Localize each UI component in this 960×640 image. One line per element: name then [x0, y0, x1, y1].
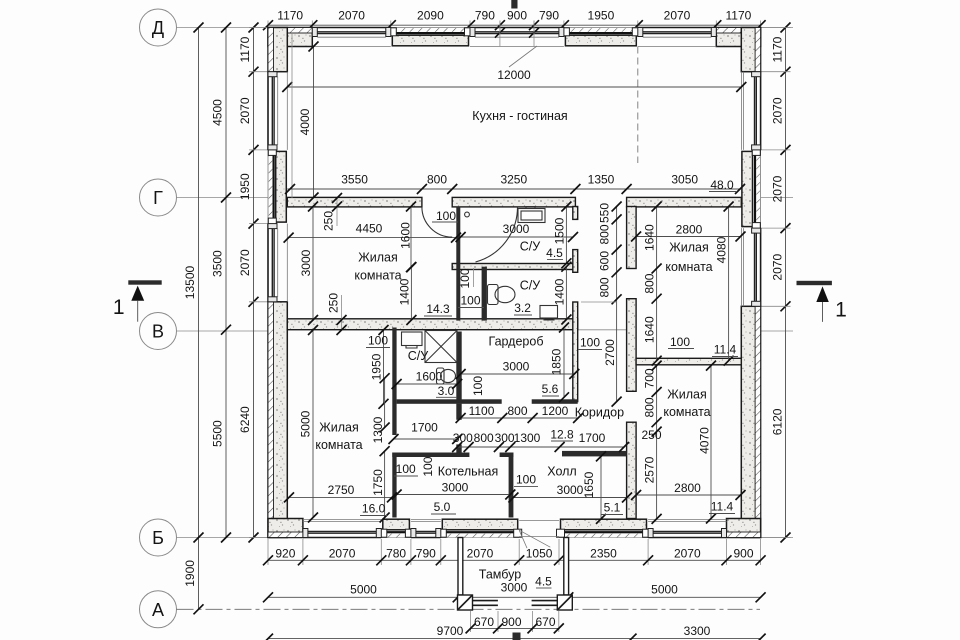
bathroom2 west wall [482, 267, 487, 321]
svg-text:2070: 2070 [238, 249, 252, 276]
svg-text:1170: 1170 [770, 36, 784, 62]
svg-text:11.4: 11.4 [711, 499, 734, 513]
bedroom TL east wall / bathroom1 west [456, 207, 460, 321]
svg-text:Гардероб: Гардероб [489, 335, 544, 349]
svg-text:3.0: 3.0 [438, 384, 455, 398]
svg-text:2700: 2700 [603, 339, 617, 366]
bathroom3 east wall + stubs [456, 332, 461, 404]
tambour south wall [473, 600, 498, 602]
svg-text:Жилая: Жилая [358, 250, 398, 264]
bedroom BL east wall [392, 328, 396, 436]
svg-text:11.4: 11.4 [714, 342, 737, 356]
dim 1700 above boiler [394, 438, 458, 440]
svg-text:1700: 1700 [411, 420, 438, 434]
bottom dimension chain 2 (5000/5000) [268, 596, 761, 598]
top wall box windows 2090/1950 [391, 27, 470, 29]
svg-text:1950: 1950 [588, 8, 615, 22]
svg-text:1650: 1650 [582, 471, 596, 498]
svg-text:1350: 1350 [588, 173, 615, 187]
svg-text:3000: 3000 [299, 249, 313, 276]
svg-text:А: А [152, 600, 164, 620]
window (bottom wall) [411, 537, 441, 539]
svg-text:100: 100 [580, 335, 600, 349]
svg-text:800: 800 [597, 224, 611, 244]
right wall box window 2070 [760, 150, 762, 228]
right dimension chain [785, 28, 787, 538]
svg-text:250: 250 [326, 293, 340, 313]
door arc bedroom TL [422, 207, 452, 237]
svg-text:2070: 2070 [664, 8, 691, 22]
svg-text:4500: 4500 [210, 99, 224, 126]
svg-text:1200: 1200 [542, 404, 569, 418]
wall row V (bedroom walls) [287, 319, 577, 330]
section mark left [128, 280, 161, 284]
dashed zone line [637, 47, 639, 164]
svg-text:6240: 6240 [238, 406, 252, 433]
svg-text:4450: 4450 [356, 221, 383, 235]
floor drain bathroom1 [465, 212, 470, 217]
bedrooms west wall (corridor east) [627, 207, 637, 269]
svg-text:1750: 1750 [371, 469, 385, 496]
entrance opening (bottom wall, tambour) [519, 520, 559, 522]
svg-text:250: 250 [641, 428, 661, 442]
right wall piers [741, 28, 760, 72]
svg-text:Г: Г [153, 188, 163, 208]
svg-text:Тамбур: Тамбур [479, 567, 521, 581]
bottom section mark [513, 633, 521, 640]
svg-text:3.2: 3.2 [514, 301, 531, 315]
svg-text:3500: 3500 [210, 250, 224, 277]
svg-text:790: 790 [416, 546, 436, 560]
wardrobe south dim chain [461, 417, 578, 419]
svg-text:800: 800 [597, 277, 611, 297]
svg-text:100: 100 [670, 335, 690, 349]
window (top wall) [470, 27, 564, 29]
bottom dimension chain 4 (9700/3300) [268, 638, 761, 640]
svg-text:1500: 1500 [552, 217, 566, 244]
svg-text:100: 100 [516, 472, 536, 486]
sink bathroom2 [540, 306, 558, 319]
svg-text:550: 550 [597, 203, 611, 223]
svg-text:790: 790 [539, 8, 559, 22]
svg-text:100: 100 [458, 268, 472, 288]
svg-text:1170: 1170 [725, 8, 751, 22]
svg-text:300: 300 [495, 431, 515, 445]
svg-text:3000: 3000 [503, 222, 530, 236]
boiler top dim chain [457, 446, 624, 448]
dim 12000 [287, 86, 741, 88]
svg-text:1400: 1400 [397, 278, 411, 305]
svg-text:2070: 2070 [770, 175, 784, 202]
svg-text:1170: 1170 [238, 36, 252, 62]
svg-text:100: 100 [460, 293, 480, 307]
svg-text:800: 800 [642, 273, 656, 293]
svg-text:2570: 2570 [642, 456, 656, 483]
svg-text:1950: 1950 [369, 353, 383, 380]
svg-text:4.5: 4.5 [535, 574, 552, 588]
svg-text:100: 100 [368, 333, 388, 347]
svg-text:5000: 5000 [298, 410, 312, 437]
svg-text:12.8: 12.8 [550, 427, 574, 441]
svg-text:1170: 1170 [277, 8, 303, 22]
svg-text:1: 1 [835, 299, 847, 322]
svg-text:5000: 5000 [651, 582, 678, 596]
svg-text:100: 100 [396, 462, 416, 476]
bottom wall box windows 780/2070/2350 [381, 537, 411, 539]
svg-text:800: 800 [474, 431, 494, 445]
corridor west wall (bathrooms east wall) [573, 207, 578, 220]
svg-text:3050: 3050 [671, 173, 698, 187]
svg-text:Жилая: Жилая [667, 387, 707, 401]
svg-text:100: 100 [471, 376, 485, 396]
kitchen south dim chain [287, 188, 741, 190]
dim 1400 v [410, 267, 412, 320]
svg-text:2070: 2070 [338, 8, 365, 22]
svg-text:Котельная: Котельная [438, 464, 499, 478]
svg-text:100: 100 [421, 456, 435, 476]
door arc bathroom1 [476, 207, 518, 262]
svg-text:800: 800 [427, 173, 447, 187]
window (top wall) [638, 27, 717, 29]
left dimension chains [198, 28, 200, 610]
svg-text:комната: комната [354, 268, 401, 282]
dim 3000 v [312, 207, 314, 321]
svg-text:2350: 2350 [590, 546, 617, 560]
sink bathroom1 [518, 209, 545, 223]
svg-text:2070: 2070 [467, 546, 494, 560]
svg-text:4000: 4000 [298, 108, 312, 135]
svg-text:790: 790 [475, 8, 495, 22]
bathroom divider wall [452, 264, 578, 270]
svg-text:1640: 1640 [642, 224, 656, 251]
svg-text:3000: 3000 [501, 580, 528, 594]
section mark right [797, 281, 832, 285]
svg-text:9700: 9700 [437, 624, 464, 638]
svg-text:12000: 12000 [497, 68, 531, 82]
dim 1600 [410, 207, 412, 268]
axis lines [177, 27, 269, 29]
svg-text:16.0: 16.0 [362, 501, 386, 515]
tambour walls [458, 538, 463, 596]
svg-text:Кухня - гостиная: Кухня - гостиная [472, 109, 567, 123]
svg-text:1050: 1050 [526, 546, 553, 560]
svg-text:1850: 1850 [549, 348, 563, 375]
shower bathroom3 [425, 331, 457, 363]
toilet bathroom2 [488, 285, 499, 305]
svg-text:670: 670 [535, 615, 555, 629]
svg-text:4070: 4070 [697, 427, 711, 454]
svg-text:2800: 2800 [674, 481, 701, 495]
svg-text:комната: комната [663, 405, 710, 419]
dim 4000 vertical [313, 47, 315, 198]
svg-text:6120: 6120 [770, 408, 784, 435]
svg-text:комната: комната [315, 438, 362, 452]
svg-text:Холл: Холл [547, 464, 576, 478]
svg-text:800: 800 [642, 397, 656, 417]
left wall box window 1950 [267, 150, 269, 224]
svg-text:5.6: 5.6 [542, 382, 559, 396]
svg-text:2070: 2070 [770, 254, 784, 281]
svg-text:комната: комната [665, 260, 712, 274]
svg-text:900: 900 [501, 615, 521, 629]
hall north wall [562, 451, 627, 457]
bedroom R1 west wall dims [656, 207, 658, 361]
window (right wall) [760, 228, 762, 306]
svg-text:1600: 1600 [416, 370, 443, 384]
wc bathroom3 [437, 368, 445, 384]
svg-text:800: 800 [507, 404, 527, 418]
svg-text:5.1: 5.1 [604, 500, 621, 514]
svg-text:1: 1 [113, 296, 125, 319]
svg-text:700: 700 [642, 368, 656, 388]
svg-text:1100: 1100 [469, 404, 495, 418]
wardrobe south wall [397, 399, 502, 404]
wall row G (kitchen south wall) [287, 197, 422, 207]
svg-text:1700: 1700 [579, 431, 606, 445]
svg-text:920: 920 [275, 546, 295, 560]
corridor dim chain [616, 207, 618, 402]
boiler room east wall [509, 453, 514, 518]
axis circles [140, 9, 177, 46]
top wall corner piers [268, 28, 312, 47]
svg-text:3000: 3000 [442, 480, 469, 494]
svg-text:2070: 2070 [674, 546, 701, 560]
svg-text:В: В [152, 322, 164, 342]
dim 4450 [289, 237, 456, 239]
svg-text:Д: Д [152, 18, 164, 38]
svg-text:С/У: С/У [520, 278, 541, 292]
svg-text:300: 300 [453, 431, 473, 445]
svg-text:600: 600 [597, 251, 611, 271]
svg-text:1300: 1300 [514, 431, 541, 445]
svg-text:1600: 1600 [398, 222, 412, 249]
entrance door leader [519, 530, 550, 547]
svg-text:900: 900 [733, 546, 753, 560]
svg-text:2070: 2070 [329, 546, 356, 560]
bedroom divider wall (right) [636, 358, 741, 365]
window (left wall) [267, 224, 269, 302]
svg-text:14.3: 14.3 [426, 302, 450, 316]
svg-text:3000: 3000 [557, 483, 584, 497]
svg-text:250: 250 [321, 211, 335, 231]
svg-text:3000: 3000 [503, 360, 530, 374]
svg-text:48.0: 48.0 [710, 178, 734, 192]
window (bottom wall) [303, 537, 381, 539]
window (top wall) [312, 27, 391, 29]
bottom dimension chain 1 [268, 559, 761, 561]
svg-text:900: 900 [507, 8, 527, 22]
svg-text:5000: 5000 [350, 582, 377, 596]
svg-text:100: 100 [436, 209, 456, 223]
svg-text:Б: Б [152, 528, 164, 548]
svg-text:1900: 1900 [183, 560, 197, 587]
left wall piers [268, 28, 287, 72]
svg-text:3550: 3550 [341, 173, 368, 187]
svg-text:С/У: С/У [520, 239, 541, 253]
svg-text:670: 670 [474, 615, 494, 629]
svg-text:3250: 3250 [500, 173, 527, 187]
svg-text:Жилая: Жилая [669, 240, 709, 254]
window (left wall) [267, 72, 269, 150]
window (right wall) [760, 72, 762, 150]
boiler room north wall [392, 453, 469, 458]
svg-text:4.5: 4.5 [546, 246, 563, 260]
svg-text:5.0: 5.0 [434, 500, 451, 514]
svg-text:2070: 2070 [238, 97, 252, 124]
svg-text:780: 780 [386, 546, 406, 560]
sink bathroom3 [402, 332, 423, 346]
bottom dimension chain 3 (670/900/670) [471, 627, 559, 629]
bottom wall corner piers [268, 519, 303, 538]
window (bottom wall) [648, 537, 726, 539]
svg-text:2750: 2750 [328, 483, 355, 497]
svg-text:3300: 3300 [684, 624, 711, 638]
svg-text:1400: 1400 [552, 278, 566, 305]
svg-text:2800: 2800 [676, 222, 703, 236]
svg-text:Коридор: Коридор [575, 406, 624, 420]
svg-text:13500: 13500 [183, 265, 197, 299]
svg-text:4080: 4080 [714, 236, 728, 263]
top dimension chain [268, 24, 761, 26]
svg-text:Жилая: Жилая [319, 420, 359, 434]
svg-text:2090: 2090 [417, 8, 444, 22]
top section mark [511, 0, 517, 9]
svg-text:1640: 1640 [642, 316, 656, 343]
svg-text:1950: 1950 [238, 173, 252, 200]
svg-text:2070: 2070 [770, 97, 784, 124]
svg-text:5500: 5500 [210, 420, 224, 447]
